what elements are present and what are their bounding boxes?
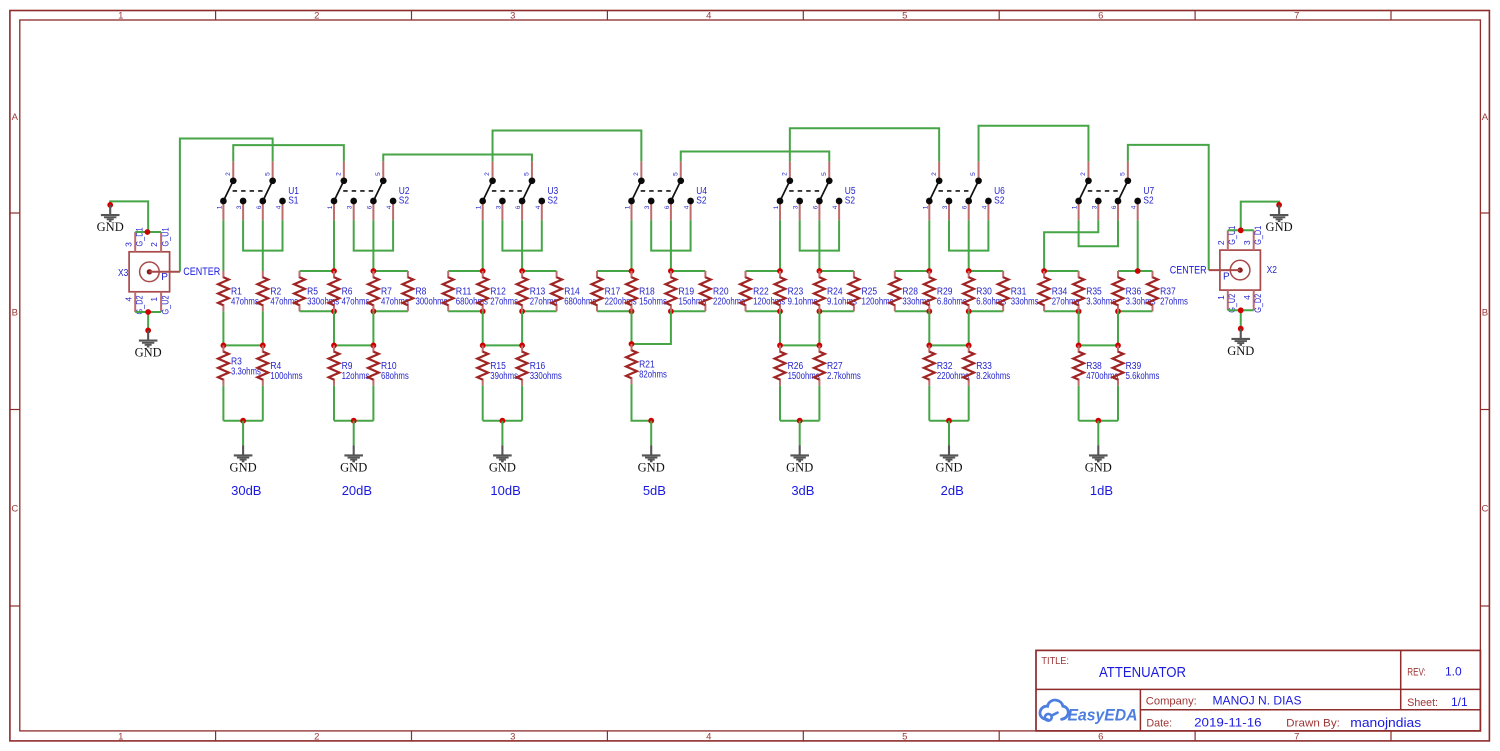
- svg-text:GND: GND: [135, 346, 162, 360]
- ground X3 top: [97, 205, 124, 234]
- wire U7 pins 1-6 jumper: [1079, 220, 1118, 246]
- ground section U6: [935, 445, 962, 474]
- junction: [1276, 202, 1282, 208]
- junction: [1135, 268, 1141, 274]
- resistor R17: [592, 271, 603, 311]
- svg-text:1: 1: [922, 205, 929, 209]
- wire to ground: [1097, 421, 1099, 446]
- label R8 300ohms: [416, 286, 448, 307]
- svg-text:5dB: 5dB: [643, 483, 666, 498]
- svg-text:6: 6: [515, 205, 522, 209]
- switch U7 S2 (DPDT): [1075, 161, 1141, 220]
- wire U3 pin 6 down to shunt: [521, 220, 523, 271]
- wire to ground: [650, 421, 652, 446]
- wire X3.P to U1 pin 5 (net CENTER): [180, 139, 273, 272]
- connector X2 (BNC, right): [1209, 230, 1261, 310]
- junction: [1115, 343, 1121, 349]
- svg-text:S1: S1: [288, 195, 299, 206]
- label R29 6.8ohms: [937, 286, 967, 307]
- wire left bottom resistor to ground bar: [928, 386, 930, 421]
- svg-text:6: 6: [1098, 11, 1103, 22]
- junction: [817, 268, 823, 274]
- svg-text:GND: GND: [786, 461, 813, 475]
- svg-text:7: 7: [1294, 731, 1299, 742]
- svg-text:33ohms: 33ohms: [1011, 296, 1039, 307]
- label R6 47ohms: [342, 286, 370, 307]
- junction: [480, 268, 486, 274]
- svg-text:3: 3: [347, 205, 354, 209]
- label R10 68ohms: [381, 361, 409, 382]
- label R32 220ohms: [937, 361, 969, 382]
- svg-text:5: 5: [375, 172, 382, 176]
- svg-text:1: 1: [1216, 295, 1226, 300]
- svg-text:3: 3: [1242, 240, 1252, 245]
- wire tie to ground (bottom left): [147, 312, 149, 330]
- wire to ground: [242, 421, 244, 446]
- svg-text:100ohms: 100ohms: [270, 371, 302, 382]
- wire right bottom resistor to ground bar: [262, 386, 264, 421]
- junction: [519, 308, 525, 314]
- label R24 9.1ohms: [827, 286, 857, 307]
- wire U2 pins 3-4 jumper: [354, 220, 393, 250]
- junction: [500, 418, 506, 424]
- wire left bottom resistor to ground bar: [779, 386, 781, 421]
- svg-text:3: 3: [942, 205, 949, 209]
- junction: [1238, 307, 1244, 313]
- wire ground bar: [780, 420, 819, 422]
- resistor R29: [924, 271, 935, 311]
- wire U6 pins 3-4 jumper: [949, 220, 988, 250]
- svg-text:X2: X2: [1267, 265, 1278, 276]
- svg-text:4: 4: [706, 11, 711, 22]
- wire right shunt to mid bar: [968, 311, 970, 345]
- wire U5 pin 2 to U6 pin 2: [790, 128, 939, 161]
- wire ground bar: [929, 420, 968, 422]
- resistor R19: [666, 271, 677, 311]
- connector X3 (BNC, left): [129, 232, 180, 312]
- ground section U4: [638, 445, 665, 474]
- label R1 47ohms: [231, 286, 259, 307]
- svg-text:X3: X3: [118, 268, 129, 279]
- svg-text:6: 6: [962, 205, 969, 209]
- wire U6 pin 5 to U7 pin 2: [979, 126, 1089, 162]
- junction: [777, 308, 783, 314]
- ground section U1: [230, 445, 257, 474]
- svg-text:1: 1: [118, 731, 123, 742]
- wire U5 pins 3-4 jumper: [800, 220, 839, 250]
- svg-text:4: 4: [832, 205, 839, 209]
- resistor R20: [700, 271, 711, 311]
- wire left shunt to mid bar: [1078, 311, 1080, 345]
- svg-text:G_D2: G_D2: [1253, 294, 1264, 313]
- junction: [946, 418, 952, 424]
- wire U4 pins 3-4 jumper: [651, 220, 690, 250]
- wire to ground: [799, 421, 801, 446]
- attenuator section 5dB (U4): [592, 161, 745, 498]
- svg-text:4: 4: [276, 205, 283, 209]
- resistor R26: [775, 345, 786, 385]
- switch U4 S2 (DPDT): [628, 161, 694, 220]
- wire U1 pin 1 down to shunt: [222, 220, 224, 271]
- svg-text:4: 4: [535, 205, 542, 209]
- svg-text:2: 2: [1080, 172, 1087, 176]
- designator U1 S1: [288, 186, 299, 206]
- resistor R7: [368, 271, 379, 311]
- resistor R11: [443, 271, 454, 311]
- junction: [926, 268, 932, 274]
- wire U2 pin 5 to U3 pin 5: [383, 155, 532, 162]
- svg-text:10dB: 10dB: [490, 483, 520, 498]
- svg-text:5: 5: [524, 172, 531, 176]
- svg-text:3: 3: [510, 11, 515, 22]
- wire X3 shield pins tie (top): [135, 231, 161, 233]
- wire ground bar: [334, 420, 373, 422]
- svg-text:G_U1: G_U1: [1227, 226, 1238, 245]
- resistor R13: [517, 271, 528, 311]
- title block texts: [1041, 655, 1468, 730]
- wire mid bar: [780, 344, 819, 346]
- switch U1 S1 (DPDT): [220, 161, 286, 220]
- svg-text:manojndias: manojndias: [1350, 716, 1421, 730]
- junction: [260, 343, 266, 349]
- svg-text:120ohms: 120ohms: [862, 296, 894, 307]
- label R33 8.2kohms: [976, 361, 1010, 382]
- svg-text:82ohms: 82ohms: [639, 369, 667, 380]
- wire parallel-pair bars left (R22||R23): [746, 271, 781, 311]
- wire parallel-pair bars right (R30||R31): [969, 271, 1004, 311]
- svg-text:C: C: [1481, 503, 1488, 514]
- svg-text:1: 1: [476, 205, 483, 209]
- wire U3 pin 2 to U4 pin 2: [493, 131, 642, 162]
- junction: [240, 418, 246, 424]
- title block: [1036, 650, 1480, 731]
- junction: [1238, 227, 1244, 233]
- svg-text:GND: GND: [638, 461, 665, 475]
- wire X2 shield pins tie (bottom): [1228, 309, 1254, 311]
- label R34 27ohms: [1052, 286, 1080, 307]
- label R13 27ohms: [530, 286, 558, 307]
- junction: [1076, 343, 1082, 349]
- junction: [107, 202, 113, 208]
- wire left shunt to mid bar: [779, 311, 781, 345]
- junction: [629, 268, 635, 274]
- svg-text:3: 3: [793, 205, 800, 209]
- wire parallel-pair bars right (R13||R14): [522, 271, 557, 311]
- svg-text:2: 2: [314, 11, 319, 22]
- label R2 47ohms: [270, 286, 298, 307]
- svg-text:2: 2: [225, 172, 232, 176]
- wire U7 pin 3 to left shunt pair: [1044, 220, 1098, 271]
- wire tie to ground (bottom right): [1240, 310, 1242, 328]
- svg-text:6: 6: [1098, 731, 1103, 742]
- wire right bottom resistor to ground bar: [521, 386, 523, 421]
- svg-text:5: 5: [902, 11, 907, 22]
- wire U3 pin 1 down to shunt: [482, 220, 484, 271]
- resistor R35: [1073, 271, 1084, 311]
- wire right bottom resistor to ground bar: [818, 386, 820, 421]
- svg-text:2: 2: [335, 172, 342, 176]
- resistor R1: [218, 271, 229, 311]
- wire mid bar: [223, 344, 262, 346]
- svg-text:S2: S2: [548, 195, 559, 206]
- label R37 27ohms: [1160, 286, 1188, 307]
- junction: [371, 343, 377, 349]
- svg-text:4: 4: [981, 205, 988, 209]
- resistor R37: [1147, 271, 1158, 311]
- junction: [519, 268, 525, 274]
- svg-text:S2: S2: [399, 195, 410, 206]
- wire parallel-pair bars left (R17||R18): [597, 271, 632, 311]
- label R18 15ohms: [639, 286, 667, 307]
- svg-text:S2: S2: [994, 195, 1005, 206]
- junction: [145, 229, 151, 235]
- wire parallel-pair bars right (R7||R8): [373, 271, 408, 311]
- wire shunt pair to R21: [632, 311, 671, 344]
- svg-text:3dB: 3dB: [791, 483, 814, 498]
- junction: [629, 308, 635, 314]
- svg-text:Drawn By:: Drawn By:: [1286, 718, 1340, 730]
- svg-text:30dB: 30dB: [231, 483, 261, 498]
- svg-text:6: 6: [812, 205, 819, 209]
- X2 pin numbers 2 3 1 4: [1216, 240, 1252, 300]
- label R35 3.3ohms: [1086, 286, 1116, 307]
- wire mid bar: [334, 344, 373, 346]
- junction: [926, 308, 932, 314]
- svg-text:Sheet:: Sheet:: [1407, 697, 1438, 709]
- label R30 6.8ohms: [976, 286, 1006, 307]
- junction: [331, 308, 337, 314]
- attenuator section 3dB (U5): [740, 161, 893, 498]
- designator U4 S2: [696, 186, 707, 206]
- resistor R5: [294, 271, 305, 311]
- svg-text:Date:: Date:: [1146, 718, 1172, 730]
- svg-text:1: 1: [118, 11, 123, 22]
- junction: [1076, 308, 1082, 314]
- svg-text:4: 4: [1242, 295, 1252, 300]
- label R23 9.1ohms: [788, 286, 818, 307]
- junction: [371, 268, 377, 274]
- svg-text:GND: GND: [489, 461, 516, 475]
- wire parallel-pair bars left (R11||R12): [448, 271, 483, 311]
- wire mid bar: [929, 344, 968, 346]
- svg-text:6.8ohms: 6.8ohms: [937, 296, 967, 307]
- junction: [1238, 326, 1244, 332]
- designator U5 S2: [845, 186, 856, 206]
- svg-text:3: 3: [123, 242, 133, 247]
- wire U3 pins 3-4 jumper: [502, 220, 541, 250]
- wire left shunt to mid bar: [928, 311, 930, 345]
- wire mid bar: [483, 344, 522, 346]
- wire X3 shield pins tie (bottom): [135, 311, 161, 313]
- wire U2 pin 1 down to shunt: [333, 220, 335, 271]
- U2 pin numbers: [327, 172, 393, 209]
- wire left bottom resistor to ground bar: [1078, 386, 1080, 421]
- resistor R27: [814, 345, 825, 385]
- svg-text:CENTER: CENTER: [183, 266, 220, 278]
- junction: [480, 343, 486, 349]
- wire left shunt to mid bar: [482, 311, 484, 345]
- label R39 5.6kohms: [1126, 361, 1160, 382]
- svg-text:7: 7: [1294, 11, 1299, 22]
- ground section U2: [340, 445, 367, 474]
- svg-text:B: B: [1482, 308, 1488, 319]
- net labels G_U1 G_D1 G_U2 G_D2: [1227, 226, 1264, 313]
- EasyEDA logo: [1040, 700, 1138, 724]
- wire U6 pin 1 down to shunt: [928, 220, 930, 271]
- svg-text:S2: S2: [696, 195, 707, 206]
- attenuator section 30dB (U1): [216, 161, 302, 498]
- svg-text:1.0: 1.0: [1445, 665, 1462, 679]
- resistor R14: [551, 271, 562, 311]
- wire U1 pins 3-4 jumper: [243, 220, 282, 250]
- U3 pin numbers: [476, 172, 542, 209]
- svg-text:9.1ohms: 9.1ohms: [788, 296, 818, 307]
- svg-text:27ohms: 27ohms: [1160, 296, 1188, 307]
- ground X2 bottom: [1227, 329, 1254, 358]
- wire left shunt to mid bar: [333, 311, 335, 345]
- svg-text:2: 2: [484, 172, 491, 176]
- svg-text:C: C: [11, 503, 18, 514]
- svg-text:1dB: 1dB: [1090, 483, 1113, 498]
- svg-text:4: 4: [1131, 205, 1138, 209]
- svg-text:68ohms: 68ohms: [381, 371, 409, 382]
- U6 pin numbers: [922, 172, 988, 209]
- svg-text:2: 2: [931, 172, 938, 176]
- wire right bottom resistor to ground bar: [372, 386, 374, 421]
- wire U4 pin 1 down to shunt: [631, 220, 633, 271]
- svg-text:27ohms: 27ohms: [490, 296, 518, 307]
- label R26 150ohms: [788, 361, 820, 382]
- label R20 220ohms: [713, 286, 745, 307]
- wire right shunt to mid bar: [372, 311, 374, 345]
- resistor R12: [477, 271, 488, 311]
- svg-text:330ohms: 330ohms: [530, 371, 562, 382]
- svg-text:4: 4: [123, 297, 133, 302]
- wire ground bar: [223, 420, 262, 422]
- wire U5 pin 6 down to shunt: [818, 220, 820, 271]
- junction: [1095, 418, 1101, 424]
- switch U6 S2 (DPDT): [926, 161, 992, 220]
- svg-text:1: 1: [773, 205, 780, 209]
- svg-text:1: 1: [149, 297, 159, 302]
- svg-text:4: 4: [684, 205, 691, 209]
- svg-text:ATTENUATOR: ATTENUATOR: [1099, 665, 1186, 681]
- svg-text:CENTER: CENTER: [1170, 265, 1207, 277]
- designator U7 S2: [1143, 186, 1154, 206]
- svg-text:20dB: 20dB: [342, 483, 372, 498]
- svg-text:5: 5: [821, 172, 828, 176]
- svg-text:G_D1: G_D1: [135, 228, 146, 247]
- resistor R31: [998, 271, 1009, 311]
- svg-text:5: 5: [902, 731, 907, 742]
- U4 pin numbers: [625, 172, 691, 209]
- junction: [966, 308, 972, 314]
- svg-text:2: 2: [633, 172, 640, 176]
- junction: [648, 418, 654, 424]
- resistor R38: [1073, 345, 1084, 385]
- junction: [480, 308, 486, 314]
- svg-text:2.7kohms: 2.7kohms: [827, 371, 861, 382]
- label R4 100ohms: [270, 361, 302, 382]
- svg-text:5: 5: [970, 172, 977, 176]
- U1 pin numbers: [216, 172, 282, 209]
- wire U5 pin 1 down to shunt: [779, 220, 781, 271]
- svg-text:3.3ohms: 3.3ohms: [1086, 296, 1116, 307]
- label R17 220ohms: [605, 286, 637, 307]
- svg-text:S2: S2: [1143, 195, 1154, 206]
- attenuator section 2dB (U6): [889, 161, 1038, 498]
- wire R21 to ground bar: [632, 384, 652, 420]
- svg-text:Company:: Company:: [1146, 695, 1197, 707]
- attenuator section 10dB (U3): [443, 161, 596, 498]
- svg-text:2dB: 2dB: [941, 483, 964, 498]
- svg-text:3: 3: [1091, 205, 1098, 209]
- U5 pin numbers: [773, 172, 839, 209]
- resistor R9: [329, 345, 340, 385]
- ground section U5: [786, 445, 813, 474]
- resistor R3: [218, 345, 229, 385]
- junction: [777, 343, 783, 349]
- label R7 47ohms: [381, 286, 409, 307]
- svg-text:5.6kohms: 5.6kohms: [1126, 371, 1160, 382]
- resistor R21: [626, 344, 637, 384]
- label R15 39ohms: [490, 361, 518, 382]
- junction: [351, 418, 357, 424]
- svg-text:P: P: [1223, 271, 1230, 282]
- svg-text:GND: GND: [97, 220, 124, 234]
- svg-text:GND: GND: [935, 461, 962, 475]
- wire parallel-pair bars right (R24||R25): [819, 271, 854, 311]
- resistor R23: [775, 271, 786, 311]
- junction: [221, 343, 227, 349]
- resistor R22: [740, 271, 751, 311]
- resistor R34: [1039, 271, 1050, 311]
- junction: [371, 308, 377, 314]
- svg-text:5: 5: [672, 172, 679, 176]
- svg-text:GND: GND: [1266, 220, 1293, 234]
- junction: [668, 308, 674, 314]
- svg-text:5: 5: [264, 172, 271, 176]
- junction: [331, 343, 337, 349]
- wire U1 pin 6 down to shunt: [262, 220, 264, 271]
- svg-text:G_D1: G_D1: [1253, 226, 1264, 245]
- wire U1 pin 2 to U2 pin 2: [233, 145, 344, 161]
- junction: [668, 268, 674, 274]
- junction: [777, 268, 783, 274]
- junction: [817, 308, 823, 314]
- svg-text:1: 1: [327, 205, 334, 209]
- wire ground bar: [483, 420, 522, 422]
- U7 pin numbers: [1072, 172, 1138, 209]
- svg-text:GND: GND: [1227, 344, 1254, 358]
- label R12 27ohms: [490, 286, 518, 307]
- svg-text:GND: GND: [1085, 461, 1112, 475]
- wire mid bar: [1079, 344, 1118, 346]
- svg-text:3: 3: [495, 205, 502, 209]
- wire right shunt to mid bar: [521, 311, 523, 345]
- wire tie to ground (top right): [1241, 202, 1279, 231]
- junction: [966, 343, 972, 349]
- svg-text:B: B: [12, 308, 18, 319]
- wire right shunt to mid bar: [818, 311, 820, 345]
- svg-text:39ohms: 39ohms: [490, 371, 518, 382]
- wire parallel-pair bars right (R36||R37): [1118, 271, 1153, 311]
- wire U7 pin 5 to X2.P (net CENTER): [1128, 145, 1209, 270]
- svg-text:REV:: REV:: [1407, 666, 1426, 678]
- svg-text:TITLE:: TITLE:: [1041, 655, 1069, 667]
- svg-text:6: 6: [664, 205, 671, 209]
- label R28 33ohms: [902, 286, 930, 307]
